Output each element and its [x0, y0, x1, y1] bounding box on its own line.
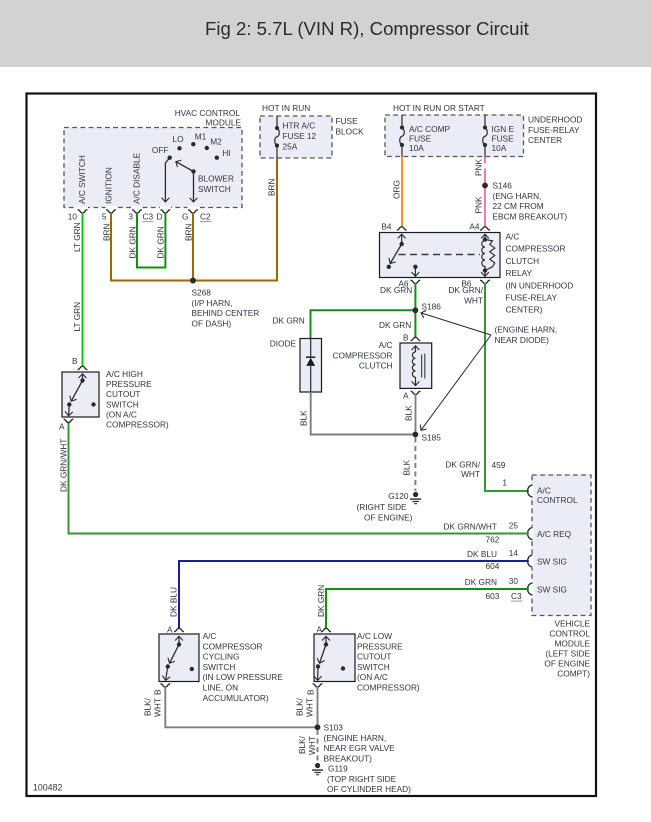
svg-text:3: 3 — [128, 212, 133, 222]
svg-text:WHT: WHT — [461, 469, 480, 479]
svg-text:HVAC CONTROL: HVAC CONTROL — [175, 108, 241, 118]
svg-text:B: B — [403, 333, 409, 343]
svg-text:A: A — [403, 391, 409, 401]
svg-text:604: 604 — [486, 561, 500, 571]
svg-text:CYCLING: CYCLING — [203, 652, 240, 662]
svg-text:COMPRESSOR): COMPRESSOR) — [357, 683, 420, 693]
svg-text:SW SIG: SW SIG — [537, 557, 567, 567]
svg-text:CENTER: CENTER — [528, 135, 562, 145]
svg-text:IGN E: IGN E — [492, 124, 515, 134]
svg-text:LT GRN: LT GRN — [72, 302, 82, 332]
svg-text:COMPT): COMPT) — [557, 668, 590, 678]
svg-text:FUSE: FUSE — [492, 134, 515, 144]
svg-text:OF CYLINDER HEAD): OF CYLINDER HEAD) — [327, 784, 411, 794]
svg-text:DK GRN: DK GRN — [273, 316, 305, 326]
svg-text:1: 1 — [502, 478, 507, 488]
svg-text:FUSE: FUSE — [409, 134, 432, 144]
svg-text:A/C: A/C — [537, 486, 551, 496]
svg-text:(ENG HARN,: (ENG HARN, — [493, 191, 542, 201]
svg-text:10A: 10A — [492, 143, 507, 153]
svg-text:A/C HIGH: A/C HIGH — [106, 369, 143, 379]
svg-text:BREAKOUT): BREAKOUT) — [324, 753, 373, 763]
svg-text:100482: 100482 — [33, 783, 62, 793]
svg-text:BLK/: BLK/ — [295, 697, 305, 716]
svg-text:ORG: ORG — [392, 180, 402, 199]
svg-text:CLUTCH: CLUTCH — [506, 256, 540, 266]
svg-text:S268: S268 — [192, 288, 212, 298]
svg-text:S103: S103 — [324, 723, 344, 733]
svg-text:M1: M1 — [195, 132, 207, 142]
svg-text:COMPRESSOR: COMPRESSOR — [203, 641, 263, 651]
svg-text:PRESSURE: PRESSURE — [106, 379, 152, 389]
svg-text:DK GRN: DK GRN — [380, 285, 412, 295]
svg-text:IGNITION: IGNITION — [104, 167, 114, 204]
svg-text:HOT IN RUN: HOT IN RUN — [262, 103, 310, 113]
svg-text:DK GRN/: DK GRN/ — [445, 460, 480, 470]
svg-text:DK BLU: DK BLU — [467, 549, 497, 559]
svg-text:OF ENGINE: OF ENGINE — [544, 658, 590, 668]
svg-text:LT GRN: LT GRN — [72, 222, 82, 252]
svg-text:A: A — [59, 422, 65, 432]
svg-text:762: 762 — [486, 535, 500, 545]
svg-text:SWITCH: SWITCH — [106, 399, 139, 409]
svg-text:22 CM FROM: 22 CM FROM — [493, 201, 544, 211]
svg-text:(ON A/C: (ON A/C — [106, 409, 137, 419]
svg-text:603: 603 — [486, 591, 500, 601]
svg-text:HOT IN RUN OR START: HOT IN RUN OR START — [393, 103, 485, 113]
svg-text:CONTROL: CONTROL — [537, 495, 578, 505]
svg-text:HTR A/C: HTR A/C — [283, 121, 316, 131]
svg-text:WHT: WHT — [464, 296, 483, 306]
svg-text:DK GRN: DK GRN — [379, 320, 411, 330]
svg-text:WHT: WHT — [307, 736, 317, 755]
svg-text:DK GRN/: DK GRN/ — [448, 285, 483, 295]
svg-text:OF ENGINE): OF ENGINE) — [364, 512, 413, 522]
svg-text:A/C: A/C — [203, 631, 217, 641]
svg-text:(IN LOW PRESSURE: (IN LOW PRESSURE — [203, 672, 284, 682]
svg-text:14: 14 — [509, 548, 519, 558]
svg-text:C2: C2 — [200, 212, 211, 222]
svg-text:10A: 10A — [409, 143, 424, 153]
svg-text:BLK/: BLK/ — [297, 735, 307, 754]
svg-text:DIODE: DIODE — [270, 339, 297, 349]
svg-text:BLOCK: BLOCK — [336, 126, 365, 136]
svg-text:B: B — [306, 689, 316, 695]
svg-text:(I/P HARN,: (I/P HARN, — [192, 298, 233, 308]
svg-text:BLK/: BLK/ — [143, 697, 153, 716]
svg-text:(ENGINE HARN,: (ENGINE HARN, — [495, 325, 558, 335]
svg-text:DK GRN: DK GRN — [465, 577, 497, 587]
svg-text:A/C COMP: A/C COMP — [409, 124, 450, 134]
svg-text:BLOWER: BLOWER — [198, 174, 234, 184]
svg-text:CUTOUT: CUTOUT — [357, 652, 391, 662]
svg-text:SWITCH: SWITCH — [198, 184, 231, 194]
svg-text:OFF: OFF — [152, 145, 169, 155]
svg-text:PRESSURE: PRESSURE — [357, 641, 403, 651]
svg-text:(LEFT SIDE: (LEFT SIDE — [545, 648, 590, 658]
svg-text:G: G — [182, 212, 188, 222]
svg-text:PNK: PNK — [474, 158, 484, 176]
svg-text:CENTER): CENTER) — [506, 305, 543, 315]
svg-text:WHT: WHT — [305, 698, 315, 717]
svg-text:A4: A4 — [469, 222, 480, 232]
svg-text:BRN: BRN — [184, 223, 194, 241]
svg-text:A: A — [167, 625, 173, 635]
svg-text:25: 25 — [509, 521, 519, 531]
svg-text:(ON A/C: (ON A/C — [357, 672, 388, 682]
svg-text:PNK: PNK — [474, 196, 484, 214]
svg-text:FUSE-RELAY: FUSE-RELAY — [528, 125, 580, 135]
svg-text:BLK: BLK — [404, 405, 414, 421]
svg-text:G120: G120 — [388, 491, 409, 501]
svg-text:NEAR EGR VALVE: NEAR EGR VALVE — [324, 743, 396, 753]
svg-text:DK GRN: DK GRN — [128, 226, 138, 258]
svg-text:25A: 25A — [283, 141, 298, 151]
svg-text:COMPRESSOR): COMPRESSOR) — [106, 420, 169, 430]
svg-text:B: B — [72, 356, 78, 366]
svg-text:BRN: BRN — [267, 178, 277, 196]
svg-text:LO: LO — [172, 134, 184, 144]
svg-text:S146: S146 — [493, 181, 513, 191]
svg-text:DK BLU: DK BLU — [169, 587, 179, 617]
svg-text:ACCUMULATOR): ACCUMULATOR) — [203, 693, 269, 703]
svg-text:COMPRESSOR: COMPRESSOR — [333, 350, 393, 360]
svg-text:HI: HI — [222, 148, 230, 158]
svg-text:B4: B4 — [381, 222, 392, 232]
svg-text:C3: C3 — [511, 591, 522, 601]
svg-text:OF DASH): OF DASH) — [192, 318, 232, 328]
svg-text:COMPRESSOR: COMPRESSOR — [506, 244, 566, 254]
svg-text:A/C LOW: A/C LOW — [357, 631, 392, 641]
svg-text:30: 30 — [509, 576, 519, 586]
svg-text:MODULE: MODULE — [206, 118, 242, 128]
svg-text:A/C SWITCH: A/C SWITCH — [77, 155, 87, 204]
svg-text:SWITCH: SWITCH — [203, 662, 236, 672]
svg-text:CLUTCH: CLUTCH — [359, 361, 393, 371]
svg-text:FUSE 12: FUSE 12 — [283, 131, 317, 141]
svg-text:A/C: A/C — [379, 340, 393, 350]
svg-text:SW SIG: SW SIG — [537, 585, 567, 595]
svg-text:DK GRN: DK GRN — [316, 585, 326, 617]
svg-text:Fig 2: 5.7L (VIN R), Compresso: Fig 2: 5.7L (VIN R), Compressor Circuit — [205, 18, 530, 39]
svg-text:CONTROL: CONTROL — [549, 628, 590, 638]
svg-text:DK GRN/WHT: DK GRN/WHT — [59, 439, 69, 492]
svg-text:DK GRN: DK GRN — [156, 226, 166, 258]
svg-text:FUSE: FUSE — [336, 116, 359, 126]
svg-text:459: 459 — [492, 460, 506, 470]
svg-text:BEHIND CENTER: BEHIND CENTER — [192, 308, 260, 318]
svg-text:SWITCH: SWITCH — [357, 662, 390, 672]
svg-text:EBCM BREAKOUT): EBCM BREAKOUT) — [493, 211, 568, 221]
svg-text:A/C DISABLE: A/C DISABLE — [132, 152, 142, 204]
svg-text:A/C: A/C — [506, 232, 520, 242]
svg-text:CUTOUT: CUTOUT — [106, 389, 140, 399]
svg-text:A/C REQ: A/C REQ — [537, 529, 572, 539]
svg-text:VEHICLE: VEHICLE — [554, 619, 590, 629]
svg-text:UNDERHOOD: UNDERHOOD — [528, 115, 582, 125]
svg-text:10: 10 — [68, 212, 78, 222]
svg-text:B: B — [153, 689, 163, 695]
svg-text:G119: G119 — [328, 764, 348, 774]
svg-text:5: 5 — [102, 212, 107, 222]
svg-text:BLK: BLK — [299, 410, 309, 426]
svg-text:BRN: BRN — [102, 223, 112, 241]
svg-text:BLK: BLK — [402, 459, 412, 475]
svg-text:RELAY: RELAY — [506, 268, 533, 278]
svg-text:D: D — [157, 212, 163, 222]
svg-text:NEAR DIODE): NEAR DIODE) — [495, 335, 550, 345]
svg-text:(RIGHT SIDE: (RIGHT SIDE — [357, 502, 408, 512]
svg-text:A: A — [316, 625, 322, 635]
svg-text:(ENGINE HARN,: (ENGINE HARN, — [324, 733, 387, 743]
svg-text:LINE, ON: LINE, ON — [203, 683, 239, 693]
svg-text:DK GRN/WHT: DK GRN/WHT — [444, 522, 497, 532]
svg-text:M2: M2 — [210, 137, 222, 147]
svg-text:S185: S185 — [422, 433, 442, 443]
svg-text:MODULE: MODULE — [555, 638, 591, 648]
svg-text:(IN UNDERHOOD: (IN UNDERHOOD — [506, 280, 574, 290]
svg-text:C3: C3 — [143, 212, 154, 222]
svg-text:WHT: WHT — [153, 698, 163, 717]
svg-text:FUSE-RELAY: FUSE-RELAY — [506, 293, 558, 303]
svg-text:(TOP RIGHT SIDE: (TOP RIGHT SIDE — [327, 774, 397, 784]
svg-text:S186: S186 — [422, 302, 442, 312]
